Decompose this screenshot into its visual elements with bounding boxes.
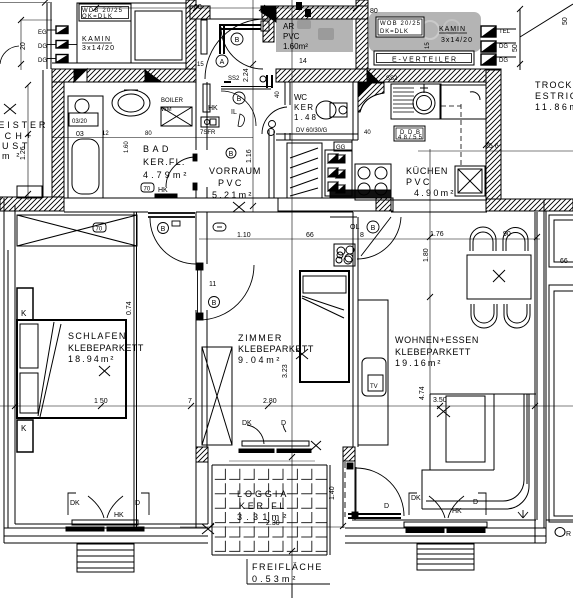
svg-text:ESTRICH: ESTRICH: [535, 91, 573, 101]
svg-text:1.40: 1.40: [329, 486, 336, 500]
svg-text:03: 03: [76, 131, 84, 138]
svg-text:IL: IL: [231, 109, 237, 116]
svg-text:80: 80: [145, 131, 152, 137]
svg-text:2.80: 2.80: [263, 398, 277, 405]
svg-text:HK: HK: [114, 512, 124, 519]
svg-text:8: 8: [360, 232, 364, 239]
svg-text:KER: KER: [294, 103, 313, 112]
svg-text:SCHLAFEN: SCHLAFEN: [68, 331, 126, 341]
svg-text:K: K: [21, 309, 27, 318]
svg-text:DG: DG: [499, 44, 508, 50]
svg-text:FREIFLÄCHE: FREIFLÄCHE: [252, 562, 322, 572]
svg-text:3.50: 3.50: [433, 397, 447, 404]
svg-text:3x14/20: 3x14/20: [441, 37, 472, 44]
svg-text:66: 66: [560, 258, 568, 265]
svg-text:0.74: 0.74: [126, 301, 133, 315]
svg-text:1.26: 1.26: [20, 146, 27, 160]
svg-text:HK: HK: [208, 105, 218, 112]
svg-text:D: D: [384, 503, 389, 510]
svg-text:HK: HK: [158, 187, 168, 194]
svg-text:B: B: [371, 225, 376, 232]
svg-text:B: B: [161, 226, 166, 233]
svg-text:KLEBEPARKETT: KLEBEPARKETT: [395, 347, 471, 357]
svg-text:LOGGIA: LOGGIA: [237, 489, 287, 499]
svg-text:2.30: 2.30: [266, 520, 280, 527]
svg-text:KAMIN: KAMIN: [82, 36, 110, 43]
svg-text:B: B: [212, 300, 217, 307]
svg-text:50: 50: [562, 17, 569, 25]
svg-text:KLEBEPARKETT: KLEBEPARKETT: [68, 343, 144, 353]
svg-text:PVC: PVC: [283, 32, 300, 41]
svg-text:BOILER: BOILER: [161, 98, 184, 104]
svg-text:PVC: PVC: [218, 178, 242, 188]
svg-text:15: 15: [197, 62, 204, 68]
svg-text:DK=DLK: DK=DLK: [380, 29, 408, 35]
svg-text:70: 70: [96, 227, 103, 233]
svg-text:KÜCHEN: KÜCHEN: [406, 166, 448, 176]
svg-text:WOB 20/25: WOB 20/25: [380, 21, 421, 27]
svg-text:14: 14: [299, 58, 307, 65]
svg-text:A: A: [220, 59, 225, 66]
svg-text:1 50: 1 50: [94, 398, 108, 405]
svg-text:WOHNEN+ESSEN: WOHNEN+ESSEN: [395, 335, 479, 345]
svg-text:TROCKEN: TROCKEN: [535, 80, 573, 90]
svg-text:3x14/20: 3x14/20: [82, 45, 114, 52]
svg-text:TEL: TEL: [499, 29, 511, 35]
svg-text:70: 70: [144, 187, 151, 193]
svg-text:15: 15: [425, 42, 431, 49]
svg-text:MEISTER: MEISTER: [0, 120, 46, 130]
svg-text:90: 90: [503, 231, 511, 238]
svg-text:50: 50: [512, 44, 519, 52]
svg-text:D: D: [135, 500, 140, 507]
svg-text:D: D: [281, 420, 286, 427]
svg-text:TV: TV: [370, 384, 378, 390]
svg-text:1.16: 1.16: [246, 149, 253, 163]
svg-text:1.48: 1.48: [294, 113, 317, 122]
svg-text:DV 60/30/G: DV 60/30/G: [296, 128, 328, 134]
svg-text:DG: DG: [38, 58, 47, 64]
svg-text:4.74: 4.74: [419, 386, 426, 400]
svg-text:B: B: [237, 96, 242, 103]
svg-text:18.94m²: 18.94m²: [68, 354, 114, 364]
svg-text:E-VERTEILER: E-VERTEILER: [392, 57, 458, 64]
svg-text:1.76: 1.76: [430, 231, 444, 238]
svg-text:B: B: [229, 151, 234, 158]
svg-text:20: 20: [20, 42, 27, 50]
svg-text:1.10: 1.10: [237, 232, 251, 239]
svg-text:KER.FL.: KER.FL.: [143, 157, 185, 167]
svg-text:11: 11: [209, 281, 216, 288]
svg-text:1.60m²: 1.60m²: [283, 42, 308, 51]
svg-text:40: 40: [364, 130, 371, 136]
svg-text:80: 80: [370, 8, 378, 15]
svg-text:KAMIN: KAMIN: [439, 26, 465, 33]
svg-text:DK: DK: [70, 500, 80, 507]
svg-text:GG: GG: [336, 145, 346, 151]
svg-text:OL: OL: [350, 224, 359, 231]
svg-text:PVC: PVC: [406, 177, 430, 187]
svg-text:SS2: SS2: [386, 76, 398, 82]
svg-text:DK: DK: [411, 495, 421, 502]
svg-text:HK: HK: [452, 508, 462, 515]
svg-text:D: D: [473, 499, 478, 506]
svg-text:SS2: SS2: [228, 76, 240, 82]
svg-text:AR: AR: [283, 22, 294, 31]
svg-text:3.23: 3.23: [282, 364, 289, 378]
svg-text:7SFR: 7SFR: [200, 130, 216, 136]
svg-text:1.80: 1.80: [423, 248, 430, 262]
svg-text:19.16m²: 19.16m²: [395, 358, 441, 368]
svg-text:EG: EG: [38, 30, 47, 36]
svg-text:03/20: 03/20: [72, 119, 88, 125]
svg-text:7: 7: [188, 398, 192, 405]
svg-text:BAD: BAD: [143, 144, 169, 154]
svg-text:B: B: [235, 37, 240, 44]
svg-text:FICH+: FICH+: [0, 131, 32, 141]
svg-text:66: 66: [306, 232, 314, 239]
svg-text:VORRAUM: VORRAUM: [209, 166, 261, 176]
svg-text:DG: DG: [38, 44, 47, 50]
svg-text:R: R: [566, 531, 571, 538]
svg-text:40: 40: [275, 91, 281, 98]
svg-text:OK=DLK: OK=DLK: [82, 14, 112, 20]
svg-text:12: 12: [102, 131, 109, 137]
svg-text:WC: WC: [294, 93, 307, 102]
svg-text:00: 00: [194, 4, 202, 11]
svg-text:DG: DG: [499, 58, 508, 64]
svg-text:K: K: [21, 424, 27, 433]
svg-text:WM: WM: [161, 107, 172, 113]
svg-text:DK: DK: [242, 420, 252, 427]
svg-text:KLEBEPARKETT: KLEBEPARKETT: [238, 344, 314, 354]
svg-text:25 6: 25 6: [485, 143, 499, 150]
svg-text:1.60: 1.60: [124, 141, 130, 153]
svg-text:2.24: 2.24: [243, 68, 250, 82]
svg-text:ZIMMER: ZIMMER: [238, 333, 282, 343]
